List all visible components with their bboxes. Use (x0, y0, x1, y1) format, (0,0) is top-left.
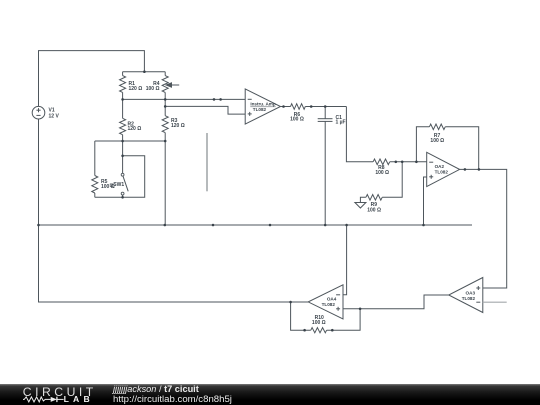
svg-text:OA2: OA2 (435, 164, 445, 169)
svg-text:100 Ω: 100 Ω (312, 320, 326, 326)
svg-text:12 V: 12 V (49, 113, 60, 119)
svg-text:OA3: OA3 (466, 290, 476, 295)
svg-text:SW1: SW1 (113, 182, 124, 188)
svg-text:1 µF: 1 µF (336, 119, 346, 125)
svg-text:TL082: TL082 (253, 107, 267, 112)
svg-text:100 Ω: 100 Ω (375, 170, 389, 176)
svg-text:TL082: TL082 (462, 296, 476, 301)
svg-text:Instru. Amp: Instru. Amp (250, 102, 276, 107)
svg-text:100 Ω: 100 Ω (290, 117, 304, 123)
svg-text:100 Ω: 100 Ω (367, 207, 381, 213)
svg-text:120 Ω: 120 Ω (128, 126, 142, 132)
svg-text:100 Ω: 100 Ω (146, 86, 160, 92)
svg-text:100 Ω: 100 Ω (430, 138, 444, 144)
svg-text:120 Ω: 120 Ω (129, 86, 143, 92)
svg-text:TL082: TL082 (435, 170, 449, 175)
svg-text:120 Ω: 120 Ω (171, 123, 185, 129)
svg-text:TL082: TL082 (322, 302, 336, 307)
svg-text:OA4: OA4 (327, 296, 337, 301)
